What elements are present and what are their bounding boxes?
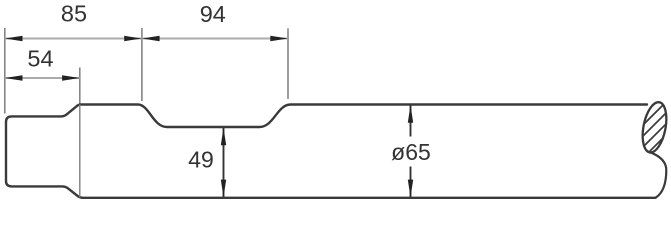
- svg-text:49: 49: [188, 147, 214, 173]
- dimension line o65 lower segment: [410, 167, 412, 198]
- extension line right (x=288): [287, 28, 289, 99]
- arrow o65 down: [408, 180, 413, 198]
- dimension line 54: [5, 77, 80, 79]
- arrow 54 right: [62, 75, 80, 80]
- arrow 85 right: [124, 36, 142, 41]
- dimension line 85: [5, 38, 142, 40]
- extension line mid (x=141.9): [141, 28, 143, 101]
- svg-text:85: 85: [61, 1, 87, 27]
- arrow 49 down: [221, 180, 226, 198]
- extension line left (x=4.8): [4, 28, 6, 114]
- dimension line o65 upper segment: [410, 105, 412, 137]
- svg-text:54: 54: [27, 46, 53, 72]
- part outline: [6, 122, 656, 198]
- arrow 94 right: [270, 36, 288, 41]
- break S-curve: [650, 152, 666, 197]
- arrow o65 up: [408, 105, 413, 123]
- dimension line 49 (vertical): [223, 128, 225, 197]
- arrow 49 up: [221, 128, 226, 146]
- arrow 54 left: [5, 75, 23, 80]
- feature edge line at x=79.8: [79, 105, 81, 198]
- svg-text:ø65: ø65: [391, 139, 431, 165]
- arrow 85 left: [5, 36, 23, 41]
- svg-text:94: 94: [200, 1, 226, 27]
- arrow 94 left: [142, 36, 160, 41]
- part outline top: [6, 105, 647, 128]
- extension line for 54 (x=79.8 above part): [79, 68, 81, 105]
- dimension line 94: [142, 38, 288, 40]
- break ellipse (section): [639, 100, 670, 154]
